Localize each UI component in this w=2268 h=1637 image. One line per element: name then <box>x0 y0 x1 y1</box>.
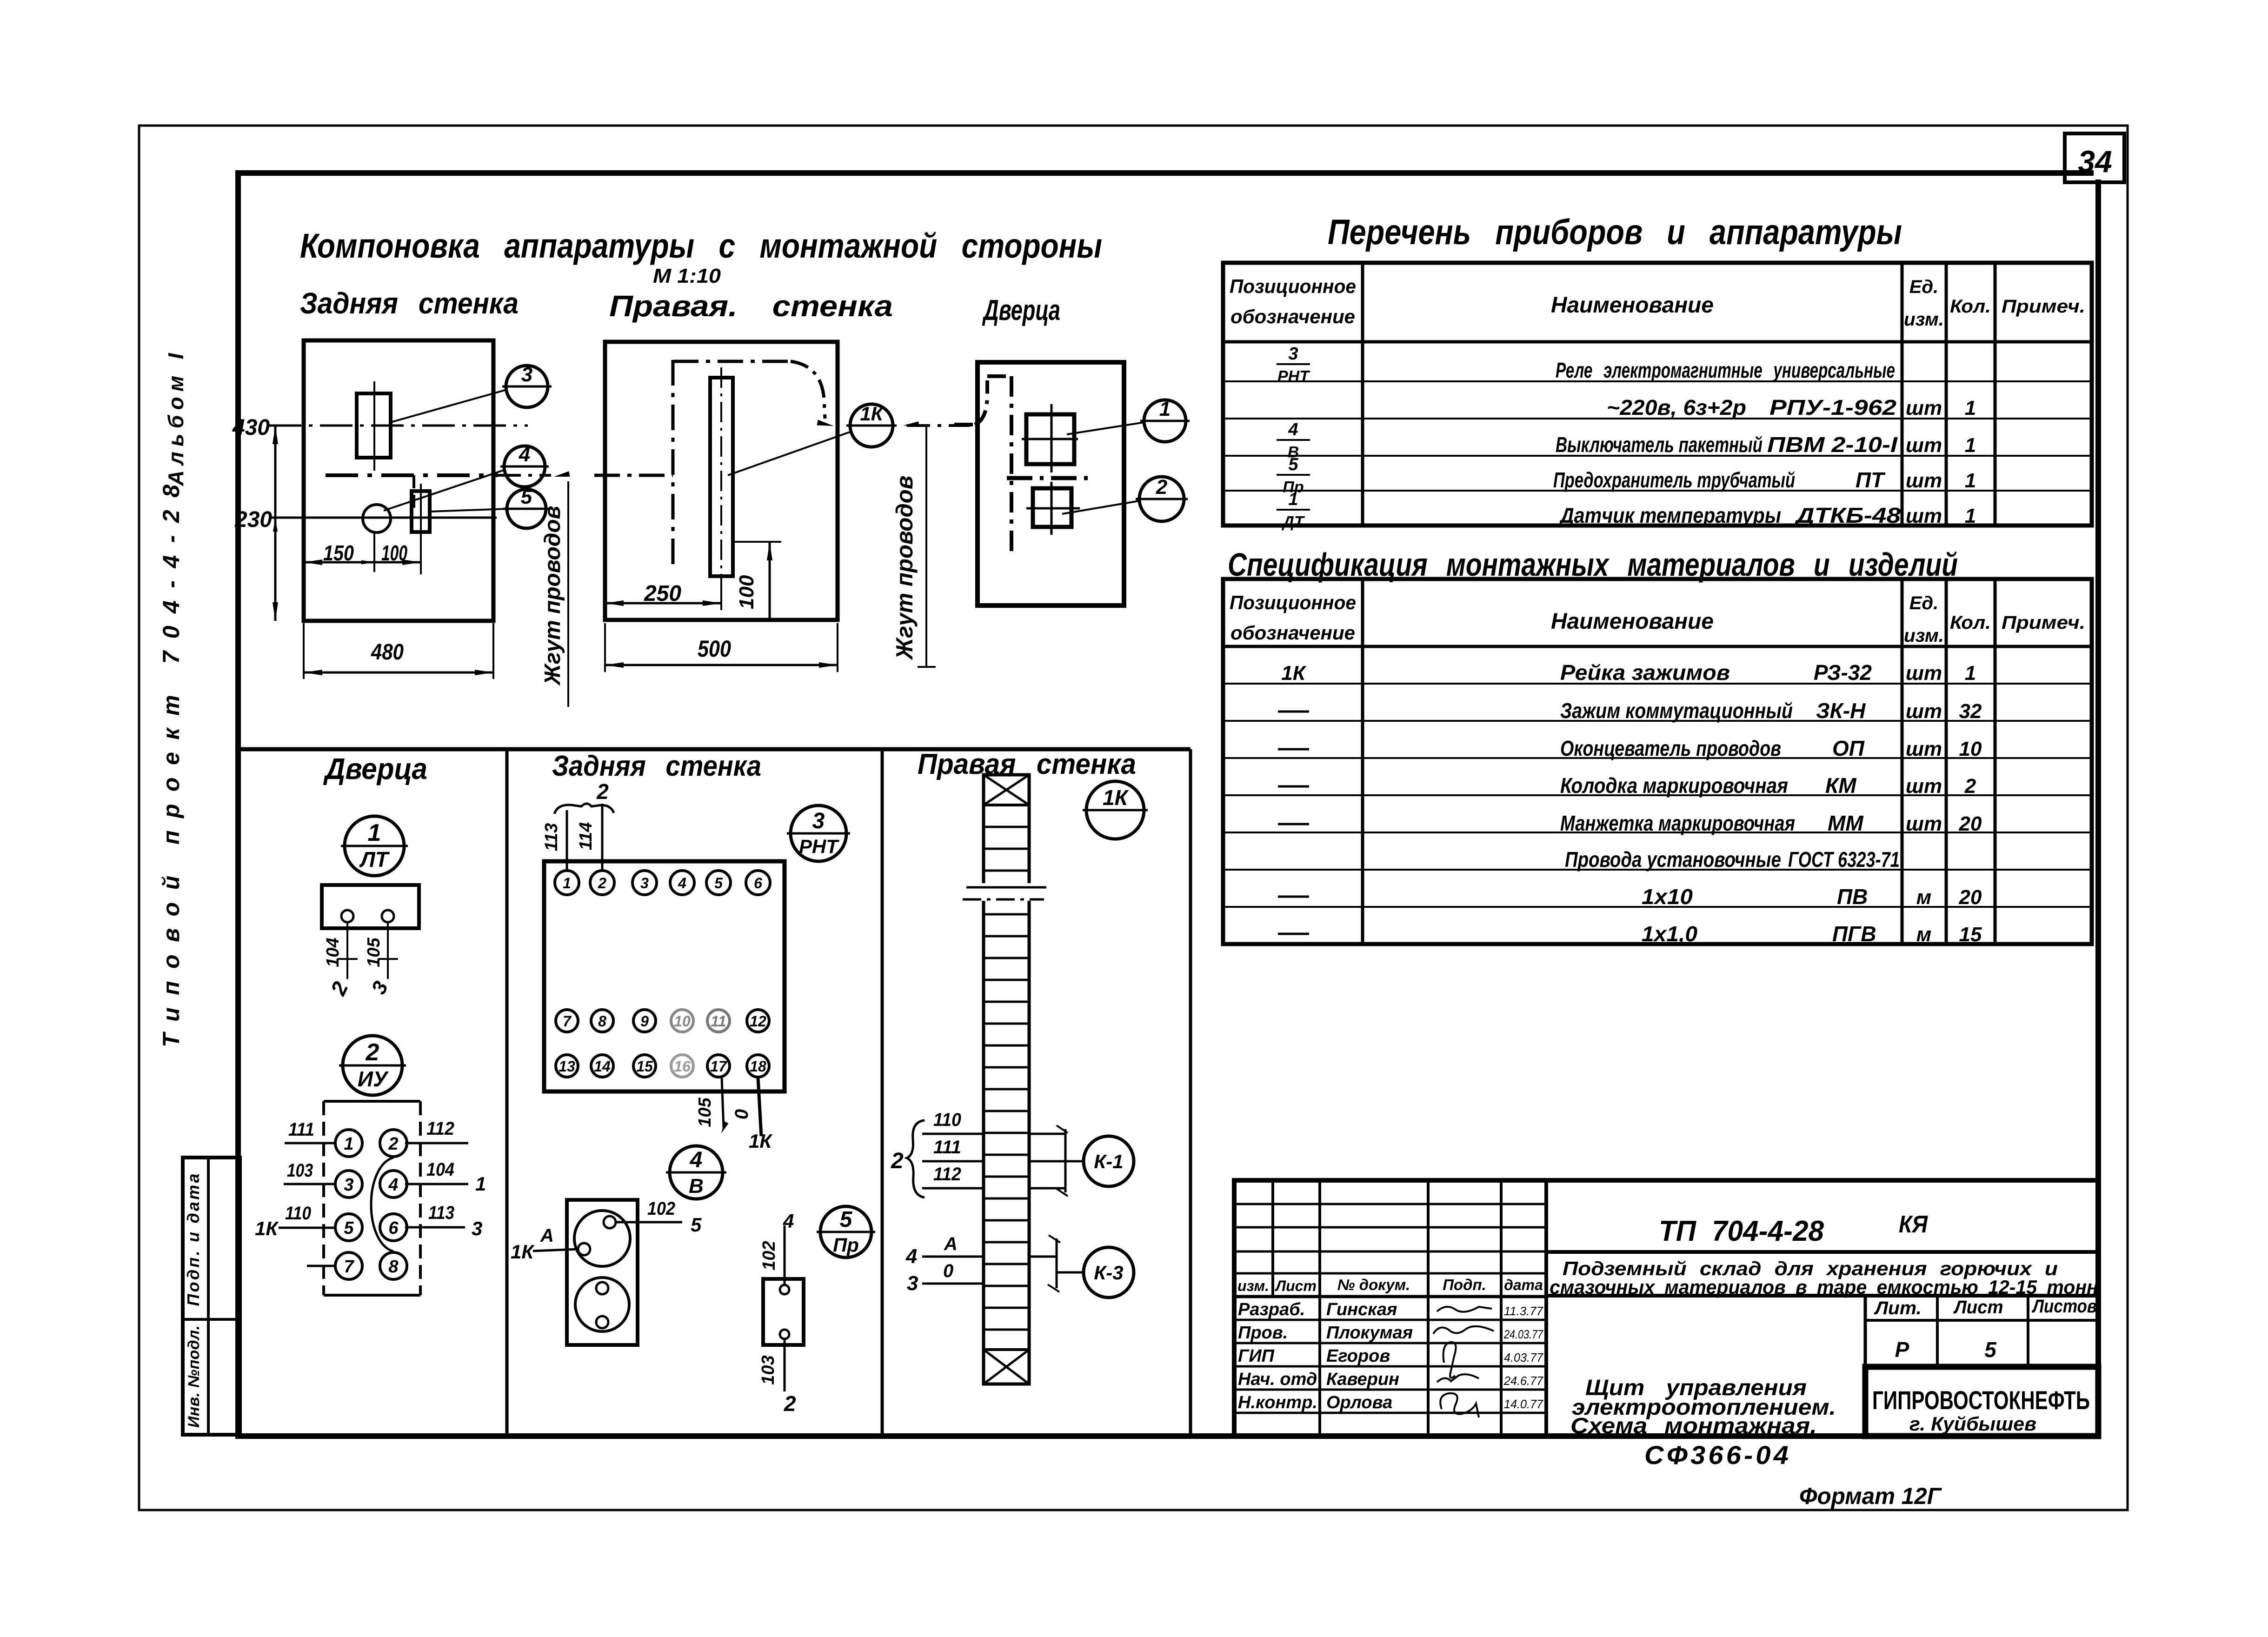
svg-text:230: 230 <box>234 507 272 532</box>
svg-text:2: 2 <box>1156 476 1168 499</box>
svg-text:Наименование: Наименование <box>1551 609 1714 634</box>
svg-text:шт: шт <box>1906 775 1942 798</box>
svg-text:0: 0 <box>732 1109 752 1119</box>
svg-text:Гинская: Гинская <box>1326 1300 1397 1319</box>
svg-text:4: 4 <box>519 443 530 466</box>
svg-text:1: 1 <box>1965 505 1976 527</box>
svg-text:Дверца: Дверца <box>982 294 1060 326</box>
svg-text:шт: шт <box>1906 505 1942 527</box>
svg-text:ДТКБ-48: ДТКБ-48 <box>1794 503 1901 527</box>
svg-text:обозначение: обозначение <box>1230 306 1355 327</box>
svg-text:РНТ: РНТ <box>1277 367 1310 385</box>
svg-text:шт: шт <box>1906 434 1942 457</box>
svg-text:5: 5 <box>691 1214 702 1236</box>
svg-text:11.3.77: 11.3.77 <box>1504 1304 1544 1318</box>
svg-text:4: 4 <box>783 1210 794 1232</box>
svg-text:1К: 1К <box>511 1241 535 1263</box>
svg-text:Жгут проводов: Жгут проводов <box>540 506 565 686</box>
svg-text:м: м <box>1916 886 1932 909</box>
svg-text:Пров.: Пров. <box>1238 1323 1288 1343</box>
svg-text:5: 5 <box>521 486 532 508</box>
svg-text:6: 6 <box>388 1218 399 1238</box>
svg-text:12: 12 <box>750 1013 766 1030</box>
svg-text:г. Куйбышев: г. Куйбышев <box>1909 1413 2036 1435</box>
svg-text:ДТ: ДТ <box>1281 513 1305 531</box>
svg-text:15: 15 <box>636 1058 653 1075</box>
svg-text:КЯ: КЯ <box>1899 1211 1928 1238</box>
svg-text:Реле электромагнитные универ: Реле электромагнитные универсальные <box>1556 358 1895 382</box>
svg-text:Манжетка маркировочная: Манжетка маркировочная <box>1560 811 1795 835</box>
svg-text:Орлова: Орлова <box>1326 1393 1392 1412</box>
svg-text:1К: 1К <box>860 403 884 425</box>
svg-text:7: 7 <box>344 1257 354 1277</box>
svg-text:ПГВ: ПГВ <box>1832 922 1876 946</box>
svg-text:8: 8 <box>598 1013 606 1030</box>
svg-text:1х1,0: 1х1,0 <box>1642 922 1697 946</box>
svg-text:смазочных материалов в таре: смазочных материалов в таре емкостью 12-… <box>1550 1276 2098 1298</box>
svg-text:4.03.77: 4.03.77 <box>1504 1351 1543 1364</box>
svg-text:№ докум.: № докум. <box>1337 1276 1410 1293</box>
svg-text:шт: шт <box>1906 662 1942 685</box>
svg-text:1К: 1К <box>255 1218 279 1239</box>
svg-text:ЛТ: ЛТ <box>359 847 390 872</box>
svg-text:103: 103 <box>287 1160 313 1181</box>
svg-text:шт: шт <box>1906 812 1942 835</box>
svg-text:16: 16 <box>674 1058 691 1075</box>
svg-text:104: 104 <box>323 938 343 967</box>
svg-text:Каверин: Каверин <box>1326 1370 1399 1389</box>
svg-text:Подп. и дата: Подп. и дата <box>184 1174 203 1306</box>
svg-text:1: 1 <box>1965 434 1976 457</box>
svg-text:105: 105 <box>695 1097 715 1127</box>
svg-text:14.0.77: 14.0.77 <box>1504 1397 1543 1411</box>
svg-text:М 1:10: М 1:10 <box>653 265 721 287</box>
svg-text:~220в, 6з+2р: ~220в, 6з+2р <box>1607 395 1746 419</box>
svg-text:110: 110 <box>285 1203 311 1224</box>
svg-text:В: В <box>689 1175 704 1198</box>
svg-text:шт: шт <box>1906 397 1942 419</box>
svg-text:Ед.: Ед. <box>1909 277 1939 297</box>
svg-text:6: 6 <box>754 875 762 892</box>
svg-text:А: А <box>540 1225 554 1246</box>
svg-text:114: 114 <box>576 822 596 851</box>
svg-text:А: А <box>944 1234 958 1254</box>
svg-text:2: 2 <box>1964 775 1976 798</box>
svg-text:14: 14 <box>594 1058 611 1075</box>
svg-text:1: 1 <box>1159 398 1171 420</box>
svg-text:113: 113 <box>428 1203 454 1223</box>
svg-text:2: 2 <box>596 779 609 804</box>
svg-text:4: 4 <box>1288 420 1298 439</box>
svg-text:1К: 1К <box>1281 662 1306 685</box>
svg-text:104: 104 <box>426 1159 454 1180</box>
svg-text:Предохранитель трубчатый: Предохранитель трубчатый <box>1553 468 1795 492</box>
svg-text:500: 500 <box>698 636 731 662</box>
svg-text:КМ: КМ <box>1825 773 1857 798</box>
svg-text:шт: шт <box>1906 700 1942 723</box>
svg-text:ТП 704-4-28: ТП 704-4-28 <box>1659 1215 1824 1247</box>
svg-text:103: 103 <box>758 1355 778 1384</box>
svg-text:Задняя стенка: Задняя стенка <box>552 750 761 782</box>
svg-text:5: 5 <box>1984 1338 1997 1362</box>
svg-text:Провода установочные: Провода установочные <box>1565 847 1781 872</box>
svg-text:Правая. стенка: Правая. стенка <box>609 289 893 323</box>
svg-text:Инв. №подл.: Инв. №подл. <box>185 1325 203 1428</box>
svg-text:20: 20 <box>1959 886 1982 909</box>
svg-text:Лист: Лист <box>1953 1297 2003 1318</box>
svg-text:3: 3 <box>907 1272 918 1295</box>
svg-text:Датчик температуры: Датчик температуры <box>1558 503 1781 527</box>
svg-text:17: 17 <box>710 1058 728 1075</box>
svg-text:Позиционное: Позиционное <box>1230 275 1356 297</box>
svg-text:Задняя стенка: Задняя стенка <box>300 286 519 320</box>
svg-text:Лист: Лист <box>1275 1278 1317 1294</box>
svg-text:9: 9 <box>640 1013 649 1030</box>
svg-text:ИУ: ИУ <box>358 1067 389 1091</box>
svg-text:24.03.77: 24.03.77 <box>1503 1327 1543 1341</box>
svg-text:ММ: ММ <box>1828 811 1864 835</box>
svg-text:м: м <box>1916 923 1932 946</box>
svg-text:10: 10 <box>674 1013 691 1030</box>
svg-text:112: 112 <box>933 1164 961 1184</box>
svg-text:Оконцеватель проводов: Оконцеватель проводов <box>1560 736 1781 760</box>
svg-text:1: 1 <box>475 1173 486 1195</box>
svg-text:РНТ: РНТ <box>799 835 839 857</box>
svg-text:Егоров: Егоров <box>1326 1346 1390 1366</box>
svg-text:Перечень приборов и аппарат: Перечень приборов и аппаратуры <box>1328 213 1902 252</box>
svg-text:1: 1 <box>344 1134 353 1154</box>
svg-text:Компоновка аппаратуры с мон: Компоновка аппаратуры с монтажной сторон… <box>300 226 1102 265</box>
svg-text:102: 102 <box>759 1241 779 1270</box>
svg-text:24.6.77: 24.6.77 <box>1503 1374 1543 1388</box>
svg-text:РПУ-1-962: РПУ-1-962 <box>1769 395 1896 419</box>
svg-text:4: 4 <box>690 1148 703 1172</box>
svg-text:Колодка маркировочная: Колодка маркировочная <box>1560 773 1788 798</box>
svg-text:5: 5 <box>344 1218 354 1238</box>
svg-text:ОП: ОП <box>1832 736 1865 760</box>
svg-text:1: 1 <box>1965 469 1976 492</box>
svg-text:1: 1 <box>1965 662 1976 685</box>
svg-text:3: 3 <box>812 809 825 833</box>
svg-text:Формат 12Г: Формат 12Г <box>1799 1483 1942 1509</box>
svg-text:4: 4 <box>678 875 686 892</box>
svg-text:15: 15 <box>1959 923 1982 946</box>
svg-text:РЗ-32: РЗ-32 <box>1814 660 1872 685</box>
svg-text:3: 3 <box>472 1218 482 1239</box>
svg-text:Примеч.: Примеч. <box>2002 296 2085 317</box>
svg-text:3: 3 <box>640 875 649 892</box>
svg-text:Выключатель пакетный: Выключатель пакетный <box>1556 433 1763 457</box>
svg-text:1К: 1К <box>1103 785 1129 810</box>
svg-text:100: 100 <box>381 541 407 565</box>
svg-text:1К: 1К <box>749 1130 773 1152</box>
svg-text:2: 2 <box>891 1149 904 1173</box>
svg-text:ГИПРОВОСТОКНЕФТЬ: ГИПРОВОСТОКНЕФТЬ <box>1872 1385 2090 1415</box>
svg-text:1: 1 <box>563 875 571 892</box>
svg-text:ЗК-Н: ЗК-Н <box>1816 699 1866 723</box>
svg-text:К-3: К-3 <box>1094 1262 1123 1284</box>
svg-text:2: 2 <box>598 875 606 892</box>
svg-text:4: 4 <box>388 1175 398 1195</box>
svg-text:ГОСТ 6323-71: ГОСТ 6323-71 <box>1788 847 1900 872</box>
svg-text:110: 110 <box>933 1110 961 1130</box>
svg-text:Кол.: Кол. <box>1950 296 1991 317</box>
svg-text:1: 1 <box>1288 490 1298 509</box>
svg-text:Н.контр.: Н.контр. <box>1238 1393 1317 1412</box>
svg-text:32: 32 <box>1959 700 1982 723</box>
svg-text:5: 5 <box>714 875 723 892</box>
svg-text:5: 5 <box>1288 455 1298 474</box>
svg-text:дата: дата <box>1504 1277 1543 1293</box>
svg-text:К-1: К-1 <box>1094 1151 1123 1172</box>
svg-text:20: 20 <box>1959 812 1982 835</box>
svg-text:1: 1 <box>368 819 381 846</box>
svg-text:Листов: Листов <box>2031 1296 2097 1317</box>
svg-text:11: 11 <box>711 1013 726 1030</box>
svg-text:3: 3 <box>1288 344 1298 364</box>
svg-text:1: 1 <box>1965 397 1976 419</box>
svg-text:430: 430 <box>232 415 270 440</box>
svg-text:Ед.: Ед. <box>1909 593 1939 613</box>
svg-text:изм.: изм. <box>1904 309 1944 330</box>
svg-text:изм.: изм. <box>1237 1278 1269 1294</box>
svg-text:шт: шт <box>1906 469 1942 492</box>
svg-text:34: 34 <box>2078 144 2112 179</box>
svg-text:2: 2 <box>784 1391 796 1416</box>
svg-text:102: 102 <box>647 1198 675 1219</box>
svg-text:Наименование: Наименование <box>1551 293 1714 318</box>
svg-text:480: 480 <box>371 640 404 665</box>
svg-text:ПВМ 2-10-Ӏ: ПВМ 2-10-Ӏ <box>1767 433 1898 457</box>
svg-text:1х10: 1х10 <box>1642 885 1693 909</box>
svg-text:обозначение: обозначение <box>1230 622 1355 644</box>
svg-text:Р: Р <box>1895 1338 1909 1362</box>
svg-text:Позиционное: Позиционное <box>1230 592 1356 613</box>
svg-text:ПВ: ПВ <box>1837 885 1868 909</box>
svg-text:Рейка зажимов: Рейка зажимов <box>1560 660 1730 685</box>
svg-text:3: 3 <box>521 363 532 386</box>
svg-text:ГИП: ГИП <box>1238 1346 1275 1366</box>
svg-text:Нач. отд: Нач. отд <box>1238 1370 1317 1389</box>
svg-text:111: 111 <box>288 1119 314 1140</box>
svg-text:105: 105 <box>364 937 384 967</box>
svg-text:113: 113 <box>542 823 561 852</box>
svg-text:5: 5 <box>840 1207 853 1232</box>
svg-text:Схема монтажная.: Схема монтажная. <box>1570 1414 1817 1438</box>
svg-text:Плокумая: Плокумая <box>1326 1323 1413 1343</box>
svg-text:18: 18 <box>750 1058 766 1075</box>
svg-text:111: 111 <box>933 1137 961 1158</box>
svg-text:изм.: изм. <box>1904 626 1944 646</box>
svg-text:Лит.: Лит. <box>1874 1298 1922 1318</box>
svg-text:13: 13 <box>559 1058 575 1075</box>
svg-text:Дверца: Дверца <box>323 752 427 785</box>
svg-text:3: 3 <box>344 1175 353 1195</box>
svg-text:2: 2 <box>366 1039 379 1066</box>
svg-text:Кол.: Кол. <box>1950 612 1991 633</box>
svg-text:7: 7 <box>563 1013 572 1030</box>
svg-text:Зажим коммутационный: Зажим коммутационный <box>1560 699 1793 723</box>
svg-text:250: 250 <box>644 581 681 606</box>
svg-text:ПТ: ПТ <box>1856 468 1886 492</box>
svg-text:СФ366-04: СФ366-04 <box>1644 1440 1791 1470</box>
svg-text:112: 112 <box>426 1118 454 1139</box>
svg-text:Пр: Пр <box>833 1234 859 1256</box>
svg-text:Разраб.: Разраб. <box>1238 1300 1305 1319</box>
svg-text:150: 150 <box>323 541 354 565</box>
svg-text:шт: шт <box>1906 738 1942 760</box>
svg-text:Примеч.: Примеч. <box>2002 612 2085 633</box>
svg-text:8: 8 <box>388 1257 399 1277</box>
svg-text:2: 2 <box>388 1134 398 1154</box>
svg-text:10: 10 <box>1959 738 1982 760</box>
svg-text:4: 4 <box>905 1245 917 1268</box>
svg-text:0: 0 <box>943 1261 953 1281</box>
svg-text:Жгут проводов: Жгут проводов <box>891 476 918 661</box>
svg-text:100: 100 <box>735 575 758 609</box>
svg-text:Подп.: Подп. <box>1443 1276 1486 1293</box>
